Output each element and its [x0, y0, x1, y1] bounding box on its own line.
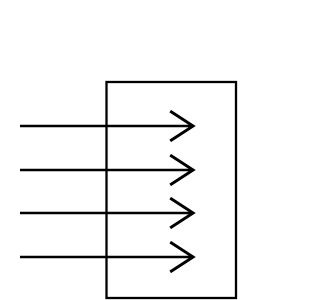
wire (arrow 2 shaft) — [20, 169, 193, 171]
arrowhead 2 — [170, 155, 193, 185]
arrowhead 3 — [170, 198, 193, 228]
arrow 3 — [20, 198, 193, 228]
wire (arrow 1 shaft) — [20, 125, 193, 127]
wire (arrow 3 shaft) — [20, 212, 193, 214]
arrowhead 1 — [170, 111, 193, 141]
wire (arrow 4 shaft) — [20, 256, 193, 258]
arrow 4 — [20, 242, 193, 272]
arrowhead 4 — [170, 242, 193, 272]
arrow 1 — [20, 111, 193, 141]
box (rectangular surface) — [107, 82, 237, 298]
arrow 2 — [20, 155, 193, 185]
